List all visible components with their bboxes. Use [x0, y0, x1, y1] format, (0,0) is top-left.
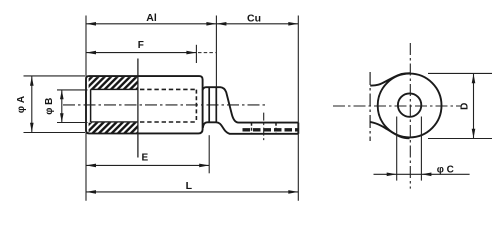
centre line axis	[63, 104, 267, 106]
svg-text:E: E	[141, 153, 148, 164]
palm right edge	[297, 123, 299, 134]
palm disc circle	[378, 74, 442, 138]
arrow F right	[186, 51, 196, 55]
end view bottom flare	[370, 122, 409, 138]
svg-text:F: F	[138, 40, 144, 51]
arrow phiA top	[30, 76, 34, 86]
weld band line 2	[215, 87, 217, 122]
arrow Al right	[206, 22, 216, 26]
svg-text:Cu: Cu	[247, 13, 261, 25]
weld band line 1	[208, 87, 210, 122]
extension line phiA bottom	[24, 132, 86, 134]
palm hole hidden edge left	[251, 123, 253, 134]
dimension D line	[473, 74, 475, 139]
palm hole circle	[398, 93, 421, 116]
bore top edge	[91, 88, 139, 90]
arrow Cu left	[216, 22, 226, 26]
extension line E right	[208, 135, 210, 173]
palm seam hidden line	[243, 128, 298, 131]
extension line Al-Cu boundary	[215, 16, 217, 87]
extension line D top	[428, 72, 492, 74]
arrow Al left	[86, 22, 96, 26]
arrow phiB top	[60, 90, 64, 99]
end view vertical centre line	[409, 43, 411, 189]
svg-text:Al: Al	[146, 12, 157, 24]
section boundary line	[137, 59, 139, 158]
arrow phiA bottom	[30, 123, 34, 133]
svg-text:D: D	[459, 103, 470, 110]
dimension Al-Cu line	[86, 23, 298, 25]
arrow F left	[86, 51, 96, 55]
neck bottom edge	[203, 122, 298, 134]
dimension phiC line	[374, 173, 470, 175]
bore end hidden line	[195, 90, 197, 122]
extension tick F right	[195, 45, 197, 63]
extension line phiC right	[420, 117, 422, 181]
dimension phiA line	[31, 76, 33, 132]
hatch wall bottom	[89, 123, 138, 133]
end view horizontal centre line	[333, 105, 461, 107]
extension line phiB bottom	[57, 122, 88, 124]
arrow phiC right	[421, 173, 431, 177]
arrow E left	[86, 164, 96, 168]
dimension phiB line	[61, 90, 63, 122]
bore hidden line top	[140, 88, 196, 90]
dimension E line	[86, 164, 209, 166]
arrow E right	[199, 164, 209, 168]
arrow Cu right	[288, 22, 298, 26]
svg-text:φ C: φ C	[437, 165, 454, 176]
arrow L left	[86, 190, 96, 194]
bore bottom edge	[91, 121, 139, 123]
hatch wall top	[89, 77, 138, 89]
arrow D top	[472, 74, 476, 84]
dimension F tail	[198, 52, 216, 54]
end view break line	[369, 72, 371, 141]
arrow L right	[288, 190, 298, 194]
dimension L line	[86, 191, 298, 193]
svg-text:φ B: φ B	[44, 98, 55, 115]
barrel outline	[86, 76, 203, 133]
barrel mouth chamfer	[90, 89, 92, 122]
extension line phiA top	[24, 75, 86, 77]
svg-text:φ A: φ A	[16, 96, 27, 113]
palm hole hidden edge right	[275, 123, 277, 134]
extension line left	[85, 16, 87, 201]
extension line phiB top	[57, 89, 88, 91]
arrow phiC left	[387, 173, 397, 177]
extension line palm end	[297, 16, 299, 201]
extension line phiC left	[396, 117, 398, 181]
bore hidden line bottom	[140, 121, 196, 123]
neck top edge	[203, 87, 299, 122]
arrow phiB bottom	[60, 113, 64, 122]
extension line D bottom	[428, 138, 492, 140]
svg-text:L: L	[186, 180, 193, 192]
arrow D bottom	[472, 129, 476, 139]
end view top flare	[370, 73, 410, 85]
palm hole centre line	[263, 113, 265, 143]
dimension F line	[86, 52, 196, 54]
